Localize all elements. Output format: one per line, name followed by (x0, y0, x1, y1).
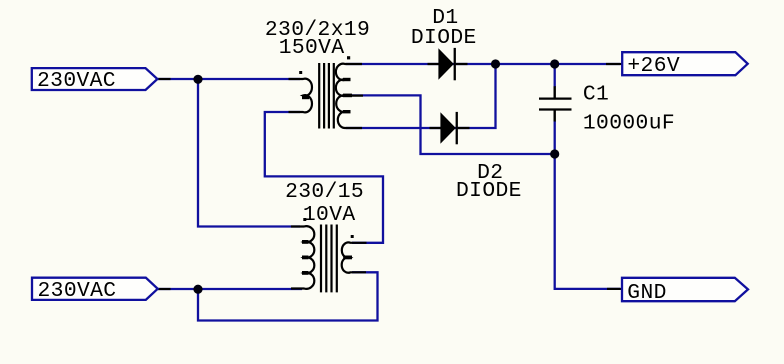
svg-text:150VA: 150VA (279, 36, 345, 60)
wire capacitor top branch (554, 64, 556, 87)
transformer TR1 core (319, 63, 334, 129)
pip TR2 primary 3 (302, 271, 309, 275)
wire big secondary top through D1 to +26V (346, 63, 620, 65)
svg-text:C1: C1 (583, 83, 609, 107)
transformer TR1 primary winding (289, 71, 312, 112)
wire vertical from top junction to small transformer primary top (198, 79, 300, 227)
wire big secondary bottom through D2 up to +26V node (346, 64, 496, 128)
pip TR2 primary 1 (302, 240, 309, 244)
svg-text:230/15: 230/15 (285, 180, 364, 204)
pin stub +26V (606, 63, 622, 65)
transformer TR2 core (321, 225, 337, 293)
connector 230VAC bottom (32, 278, 158, 303)
pin stub 230VAC top (158, 78, 171, 80)
phase dot TR2 primary (303, 218, 306, 221)
wire center tap to capacitor bottom junction (346, 95, 555, 154)
transformer TR2 secondary winding (342, 235, 367, 273)
transformer TR2 primary winding (291, 218, 314, 289)
junction +26V capacitor top node (550, 59, 559, 68)
wire big primary bottom to small secondary top (265, 112, 383, 243)
pip TR2 secondary (343, 256, 352, 260)
phase dot TR2 secondary (351, 235, 354, 238)
diode D2 (430, 112, 470, 144)
pip TR1 secondary upper (343, 78, 351, 81)
phase dot TR1 primary (299, 71, 302, 74)
wire bottom loop to small secondary bottom (198, 272, 378, 320)
pip TR1 secondary lower (343, 110, 351, 113)
svg-text:10VA: 10VA (303, 203, 356, 227)
junction capacitor bottom GND node (550, 149, 559, 158)
wire net 230VAC bottom rail (158, 288, 302, 290)
connector +26V (622, 52, 748, 78)
capacitor C1 (539, 86, 572, 121)
svg-text:GND: GND (627, 281, 666, 305)
diode D1 (428, 48, 468, 80)
svg-text:230VAC: 230VAC (37, 69, 116, 93)
wire capacitor bottom branch down to GND (555, 121, 620, 289)
connector 230VAC top (32, 68, 158, 93)
connector GND (622, 278, 748, 305)
svg-text:DIODE: DIODE (456, 179, 522, 203)
svg-text:+26V: +26V (627, 54, 680, 78)
transformer TR1 secondary winding (336, 56, 363, 128)
svg-text:DIODE: DIODE (411, 26, 477, 50)
pin stub 230VAC bottom (158, 288, 171, 290)
svg-text:10000uF: 10000uF (583, 112, 675, 136)
svg-text:230VAC: 230VAC (38, 279, 117, 303)
wire net 230VAC top rail (158, 78, 300, 80)
phase dot TR1 secondary (347, 56, 350, 59)
pip TR2 primary 2 (302, 256, 309, 260)
pip TR1 secondary center tap (343, 94, 352, 98)
junction top-left node (193, 75, 202, 84)
pip TR1 primary (302, 95, 309, 99)
pin stub GND (607, 288, 622, 290)
junction bottom-left node (193, 285, 202, 294)
junction diode outputs node (491, 59, 500, 68)
